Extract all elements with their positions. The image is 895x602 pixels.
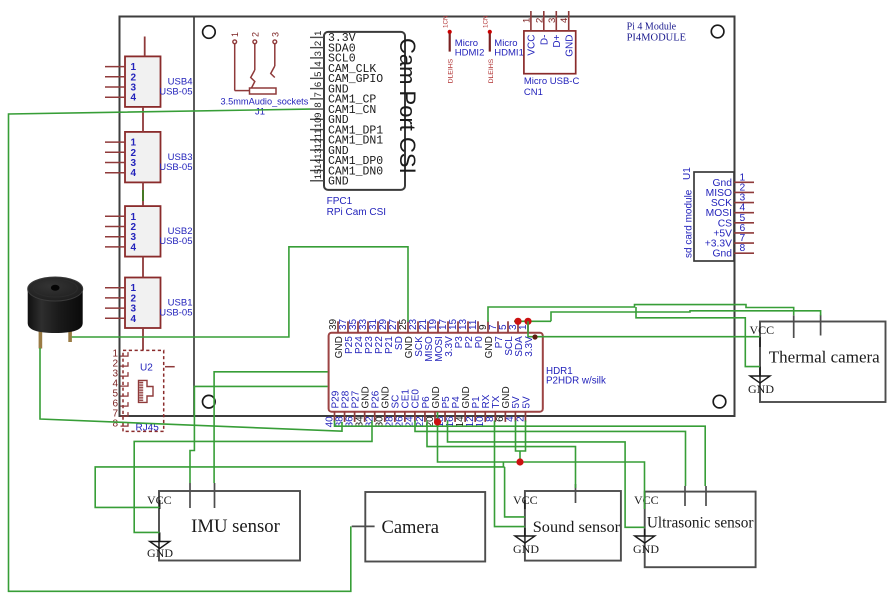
svg-text:13: 13 xyxy=(313,148,324,159)
svg-text:HDMI2: HDMI2 xyxy=(455,47,485,58)
svg-text:9: 9 xyxy=(313,113,324,118)
svg-text:sd card module: sd card module xyxy=(684,189,695,258)
svg-text:1: 1 xyxy=(313,31,324,36)
svg-text:3: 3 xyxy=(313,51,324,56)
svg-text:FPC1: FPC1 xyxy=(327,196,353,207)
svg-text:8: 8 xyxy=(112,419,118,430)
svg-text:2: 2 xyxy=(313,41,324,46)
svg-text:1: 1 xyxy=(521,18,532,23)
svg-text:Camera: Camera xyxy=(381,518,439,538)
svg-text:GND: GND xyxy=(565,35,576,57)
svg-text:7: 7 xyxy=(313,92,324,97)
svg-text:U2: U2 xyxy=(140,363,153,374)
svg-text:10: 10 xyxy=(313,117,324,128)
svg-text:PI4MODULE: PI4MODULE xyxy=(627,32,687,43)
svg-text:1CN: 1CN xyxy=(442,15,449,28)
svg-text:4: 4 xyxy=(131,242,137,253)
svg-text:Ultrasonic sensor: Ultrasonic sensor xyxy=(647,514,754,531)
svg-text:USB-05: USB-05 xyxy=(159,86,192,97)
svg-text:VCC: VCC xyxy=(750,323,775,337)
svg-text:GND: GND xyxy=(147,546,173,560)
svg-text:6: 6 xyxy=(313,82,324,87)
svg-text:8: 8 xyxy=(313,102,324,107)
svg-text:1: 1 xyxy=(230,32,240,37)
svg-text:J1: J1 xyxy=(255,107,265,118)
svg-text:HDMI1: HDMI1 xyxy=(494,47,524,58)
svg-text:U1: U1 xyxy=(682,167,693,180)
svg-text:5V: 5V xyxy=(521,396,532,409)
svg-text:1CN: 1CN xyxy=(483,15,490,28)
svg-text:Sound sensor: Sound sensor xyxy=(533,517,621,536)
svg-text:15: 15 xyxy=(313,169,324,180)
svg-text:4: 4 xyxy=(131,168,137,179)
svg-text:3.3V: 3.3V xyxy=(524,336,535,357)
svg-text:Thermal camera: Thermal camera xyxy=(769,347,880,366)
svg-text:DLEIHS: DLEIHS xyxy=(448,58,455,83)
svg-text:USB-05: USB-05 xyxy=(159,162,192,173)
svg-text:CN1: CN1 xyxy=(524,87,543,98)
svg-text:Pi 4 Module: Pi 4 Module xyxy=(627,22,677,33)
svg-text:14: 14 xyxy=(313,158,324,169)
svg-text:Gnd: Gnd xyxy=(713,249,733,260)
svg-text:4: 4 xyxy=(313,61,324,66)
svg-text:P2HDR w/silk: P2HDR w/silk xyxy=(546,376,606,387)
svg-text:Cam Port CSI: Cam Port CSI xyxy=(395,38,420,174)
svg-text:8: 8 xyxy=(740,243,746,254)
svg-text:5: 5 xyxy=(313,72,324,77)
svg-text:4: 4 xyxy=(559,18,570,23)
svg-text:3: 3 xyxy=(270,32,280,37)
svg-text:D+: D+ xyxy=(552,34,563,47)
svg-text:USB-05: USB-05 xyxy=(159,308,192,319)
svg-text:3.5mmAudio_sockets: 3.5mmAudio_sockets xyxy=(221,97,309,107)
svg-text:11: 11 xyxy=(313,128,324,138)
svg-text:VCC: VCC xyxy=(634,493,659,507)
svg-text:12: 12 xyxy=(313,138,324,149)
svg-text:3: 3 xyxy=(547,18,558,23)
svg-text:GND: GND xyxy=(328,176,349,189)
svg-text:DLEIHS: DLEIHS xyxy=(488,58,495,83)
svg-text:D-: D- xyxy=(540,35,551,46)
svg-text:2: 2 xyxy=(515,416,526,422)
svg-text:RPi Cam CSI: RPi Cam CSI xyxy=(327,207,386,218)
svg-text:GND: GND xyxy=(633,542,659,556)
svg-text:GND: GND xyxy=(748,382,774,396)
svg-text:IMU sensor: IMU sensor xyxy=(191,516,281,537)
svg-text:1: 1 xyxy=(518,324,529,330)
svg-text:4: 4 xyxy=(131,93,137,104)
svg-text:2: 2 xyxy=(534,18,545,23)
svg-text:Micro USB-C: Micro USB-C xyxy=(524,76,580,87)
svg-text:2: 2 xyxy=(250,32,260,37)
svg-text:4: 4 xyxy=(131,314,137,325)
svg-text:GND: GND xyxy=(513,542,539,556)
svg-text:VCC: VCC xyxy=(527,35,538,56)
svg-text:USB-05: USB-05 xyxy=(159,236,192,247)
